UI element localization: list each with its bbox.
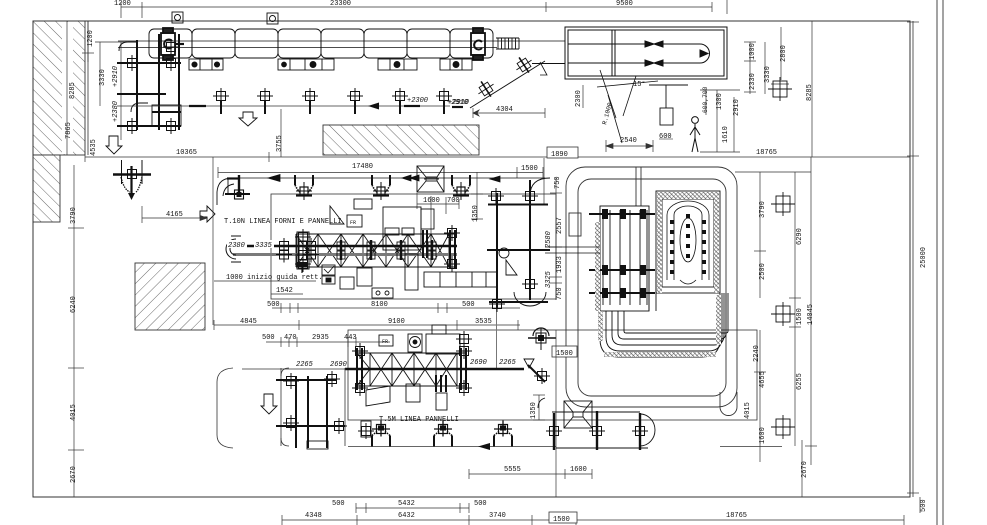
- svg-text:18765: 18765: [726, 512, 747, 520]
- left tower: [600, 206, 649, 311]
- svg-text:2540: 2540: [620, 137, 637, 145]
- person dims: [700, 90, 740, 152]
- svg-text:3325: 3325: [545, 270, 553, 288]
- svg-text:+2910: +2910: [112, 66, 120, 87]
- svg-text:500: 500: [474, 500, 487, 508]
- dim label 10980: [356, 146, 380, 156]
- corridor bottom tongue: [720, 392, 737, 416]
- boxes below truss: [322, 254, 497, 298]
- left wall hatch top: [33, 21, 85, 155]
- svg-text:500: 500: [332, 500, 345, 508]
- svg-text:500: 500: [462, 301, 475, 309]
- svg-text:T.10N LINEA FORNI E PANNELLI: T.10N LINEA FORNI E PANNELLI: [224, 218, 342, 226]
- diagonal conveyor to oven: [470, 53, 565, 108]
- wall dim gap strip: [62, 22, 73, 154]
- svg-text:+2910: +2910: [447, 99, 468, 107]
- svg-text:600,700: 600,700: [702, 86, 709, 113]
- left roller: [161, 28, 184, 60]
- 600 box: [649, 85, 688, 125]
- svg-text:7865: 7865: [65, 122, 73, 139]
- svg-text:+2300: +2300: [407, 97, 428, 105]
- left italic labels: [227, 240, 247, 248]
- boxed label 1890: [547, 147, 578, 158]
- svg-text:1350: 1350: [530, 402, 538, 419]
- svg-text:6255: 6255: [796, 373, 804, 390]
- hollow down arrow: [239, 112, 257, 126]
- svg-text:470: 470: [284, 334, 297, 342]
- motor boxes below conveyor: [189, 59, 472, 70]
- svg-text:1600: 1600: [570, 466, 587, 474]
- svg-text:1500: 1500: [556, 350, 573, 358]
- svg-text:2265: 2265: [499, 359, 517, 367]
- svg-text:2935: 2935: [312, 334, 329, 342]
- svg-text:500: 500: [262, 334, 275, 342]
- svg-text:FR: FR: [350, 220, 356, 226]
- svg-text:4845: 4845: [240, 318, 257, 326]
- dims right of top oven: [744, 27, 789, 94]
- svg-text:1542: 1542: [276, 287, 293, 295]
- svg-text:6432: 6432: [398, 512, 415, 520]
- svg-text:500: 500: [920, 499, 928, 512]
- svg-text:18765: 18765: [756, 149, 777, 157]
- funnel & right items: [524, 359, 545, 382]
- svg-text:3755: 3755: [276, 135, 284, 152]
- svg-text:8100: 8100: [371, 301, 388, 309]
- svg-text:700: 700: [447, 197, 460, 205]
- svg-text:3790: 3790: [759, 201, 767, 218]
- svg-text:2500: 2500: [759, 263, 767, 280]
- dark right end column: [450, 230, 455, 268]
- svg-text:3535: 3535: [475, 318, 492, 326]
- svg-text:1600: 1600: [759, 427, 767, 444]
- svg-text:T.5M LINEA PANNELLI: T.5M LINEA PANNELLI: [379, 416, 459, 424]
- svg-text:1933: 1933: [556, 256, 564, 273]
- machines below: [366, 384, 447, 410]
- overhead line y=178 with saddles: [228, 175, 545, 183]
- small left arrow on line: [368, 103, 379, 110]
- svg-text:4348: 4348: [305, 512, 322, 520]
- bottom transfer line with hopper: [538, 398, 655, 448]
- svg-text:8285: 8285: [806, 84, 814, 101]
- svg-text:2300: 2300: [575, 90, 583, 107]
- boxes above truss: [330, 199, 434, 250]
- svg-text:2265: 2265: [296, 361, 314, 369]
- svg-text:2690: 2690: [470, 359, 487, 367]
- main truss: [296, 234, 457, 267]
- column symbols right: [771, 192, 795, 216]
- hopper X box: [417, 166, 444, 192]
- dims above: [266, 337, 390, 347]
- right double property lines: [936, 0, 938, 525]
- svg-text:2580: 2580: [545, 231, 553, 248]
- dims below upper machine: [214, 294, 520, 330]
- svg-text:14045: 14045: [807, 304, 815, 325]
- svg-text:23300: 23300: [330, 0, 351, 8]
- belt lines: [118, 40, 565, 42]
- svg-text:9500: 9500: [616, 0, 633, 8]
- svg-text:500: 500: [267, 301, 280, 309]
- svg-text:600: 600: [659, 133, 672, 141]
- svg-text:1890: 1890: [551, 151, 568, 159]
- svg-text:1200: 1200: [114, 0, 131, 8]
- svg-text:4165: 4165: [166, 211, 183, 219]
- right dim chain x=556: [550, 178, 562, 300]
- machines above: [379, 325, 460, 354]
- svg-text:4535: 4535: [90, 139, 98, 156]
- right tower with hatched walls: [656, 191, 720, 293]
- svg-text:4655: 4655: [759, 371, 767, 388]
- svg-text:10365: 10365: [176, 149, 197, 157]
- dome support 541: [528, 328, 556, 350]
- small crosses on bus: [341, 240, 432, 260]
- svg-text:4015: 4015: [744, 402, 752, 419]
- left roller cluster: [297, 232, 309, 269]
- svg-text:1610: 1610: [722, 126, 730, 143]
- svg-text:3335: 3335: [255, 242, 273, 250]
- return loop bracket: [217, 368, 233, 448]
- svg-text:3740: 3740: [489, 512, 506, 520]
- end columns: [357, 348, 466, 390]
- svg-text:1000: 1000: [749, 43, 757, 60]
- oven entry connectors: [545, 247, 600, 253]
- svg-text:15°: 15°: [633, 80, 646, 89]
- right roller: [471, 28, 485, 60]
- small squares above conveyor: [172, 12, 278, 24]
- svg-text:5555: 5555: [504, 466, 521, 474]
- svg-text:9100: 9100: [388, 318, 405, 326]
- bus end loop: [226, 236, 241, 262]
- svg-text:17480: 17480: [352, 163, 373, 171]
- hollow down arrow: [261, 394, 277, 414]
- svg-text:1500: 1500: [521, 165, 538, 173]
- svg-text:2557: 2557: [556, 217, 564, 234]
- svg-text:443: 443: [344, 334, 357, 342]
- svg-text:2690: 2690: [330, 361, 347, 369]
- svg-text:5432: 5432: [398, 500, 415, 508]
- 1500 dim top: [0, 0, 1, 1]
- truss: [357, 353, 467, 386]
- thick bus bars: [233, 246, 457, 255]
- U loop inside right tower: [667, 201, 709, 284]
- svg-text:2910: 2910: [733, 99, 741, 116]
- svg-text:2380: 2380: [228, 242, 245, 250]
- bottom U channel: [600, 270, 728, 357]
- svg-text:3330: 3330: [764, 66, 772, 83]
- svg-text:1500: 1500: [796, 308, 804, 325]
- svg-text:1500: 1500: [553, 516, 570, 524]
- svg-text:750: 750: [554, 176, 562, 189]
- svg-text:1350: 1350: [472, 205, 480, 222]
- svg-text:8285: 8285: [69, 82, 77, 99]
- svg-text:4304: 4304: [496, 106, 513, 114]
- rounded corridor boundary: [566, 167, 737, 407]
- svg-text:+2380: +2380: [112, 101, 120, 122]
- svg-text:1600: 1600: [423, 197, 440, 205]
- axis: [345, 368, 524, 370]
- svg-text:25000: 25000: [920, 247, 928, 268]
- left dim chain labels: [65, 30, 120, 483]
- saddles row bottom: [348, 446, 782, 448]
- person figure: [690, 117, 700, 152]
- left wall hatch lower: [33, 155, 60, 222]
- svg-text:1300: 1300: [716, 93, 724, 110]
- dark mechanism: [423, 230, 427, 258]
- ladder at right end: [496, 38, 519, 49]
- svg-text:2240: 2240: [753, 345, 761, 362]
- svg-text:2800: 2800: [780, 45, 788, 62]
- svg-text:750: 750: [556, 287, 564, 300]
- svg-text:2330: 2330: [749, 73, 757, 90]
- svg-text:6290: 6290: [796, 228, 804, 245]
